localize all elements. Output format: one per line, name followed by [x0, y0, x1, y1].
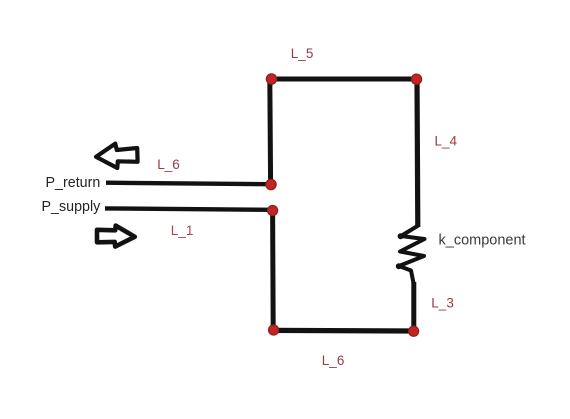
- node: P_supply junction dot: [268, 206, 278, 216]
- svg-text:L_1: L_1: [171, 223, 194, 238]
- node: bottom-right junction dot: [409, 326, 419, 336]
- svg-text:P_return: P_return: [46, 175, 101, 191]
- wire left vertical upper (top-left corner to P_return junction): [267, 77, 273, 184]
- svg-text:L_6: L_6: [157, 157, 180, 172]
- node: top-right junction dot: [411, 74, 421, 84]
- resistor k_component (hand-drawn zigzag): [396, 226, 425, 283]
- svg-text:L_5: L_5: [291, 46, 314, 61]
- node: top-left junction dot: [266, 74, 276, 84]
- wire L_6 (P_return lead): [106, 183, 271, 185]
- wire L_3 (right vertical lower): [411, 282, 416, 331]
- wire left vertical lower (P_supply junction to bottom-left corner): [270, 210, 276, 331]
- svg-text:L_6: L_6: [322, 353, 345, 368]
- wire L_4 (right vertical upper): [414, 79, 420, 227]
- node: bottom-left junction dot: [269, 325, 279, 335]
- wire L_6 (bottom horizontal): [273, 328, 414, 334]
- svg-text:L_4: L_4: [435, 134, 458, 149]
- svg-text:P_supply: P_supply: [42, 199, 102, 215]
- node: P_return junction dot: [266, 179, 276, 189]
- wire L_5 (top horizontal): [271, 77, 417, 82]
- wire L_1 (P_supply lead): [105, 208, 273, 209]
- arrow: return current direction (points left): [96, 144, 138, 168]
- svg-text:L_3: L_3: [431, 296, 454, 311]
- arrow: supply current direction (points right): [97, 226, 135, 247]
- svg-text:k_component: k_component: [439, 233, 526, 249]
